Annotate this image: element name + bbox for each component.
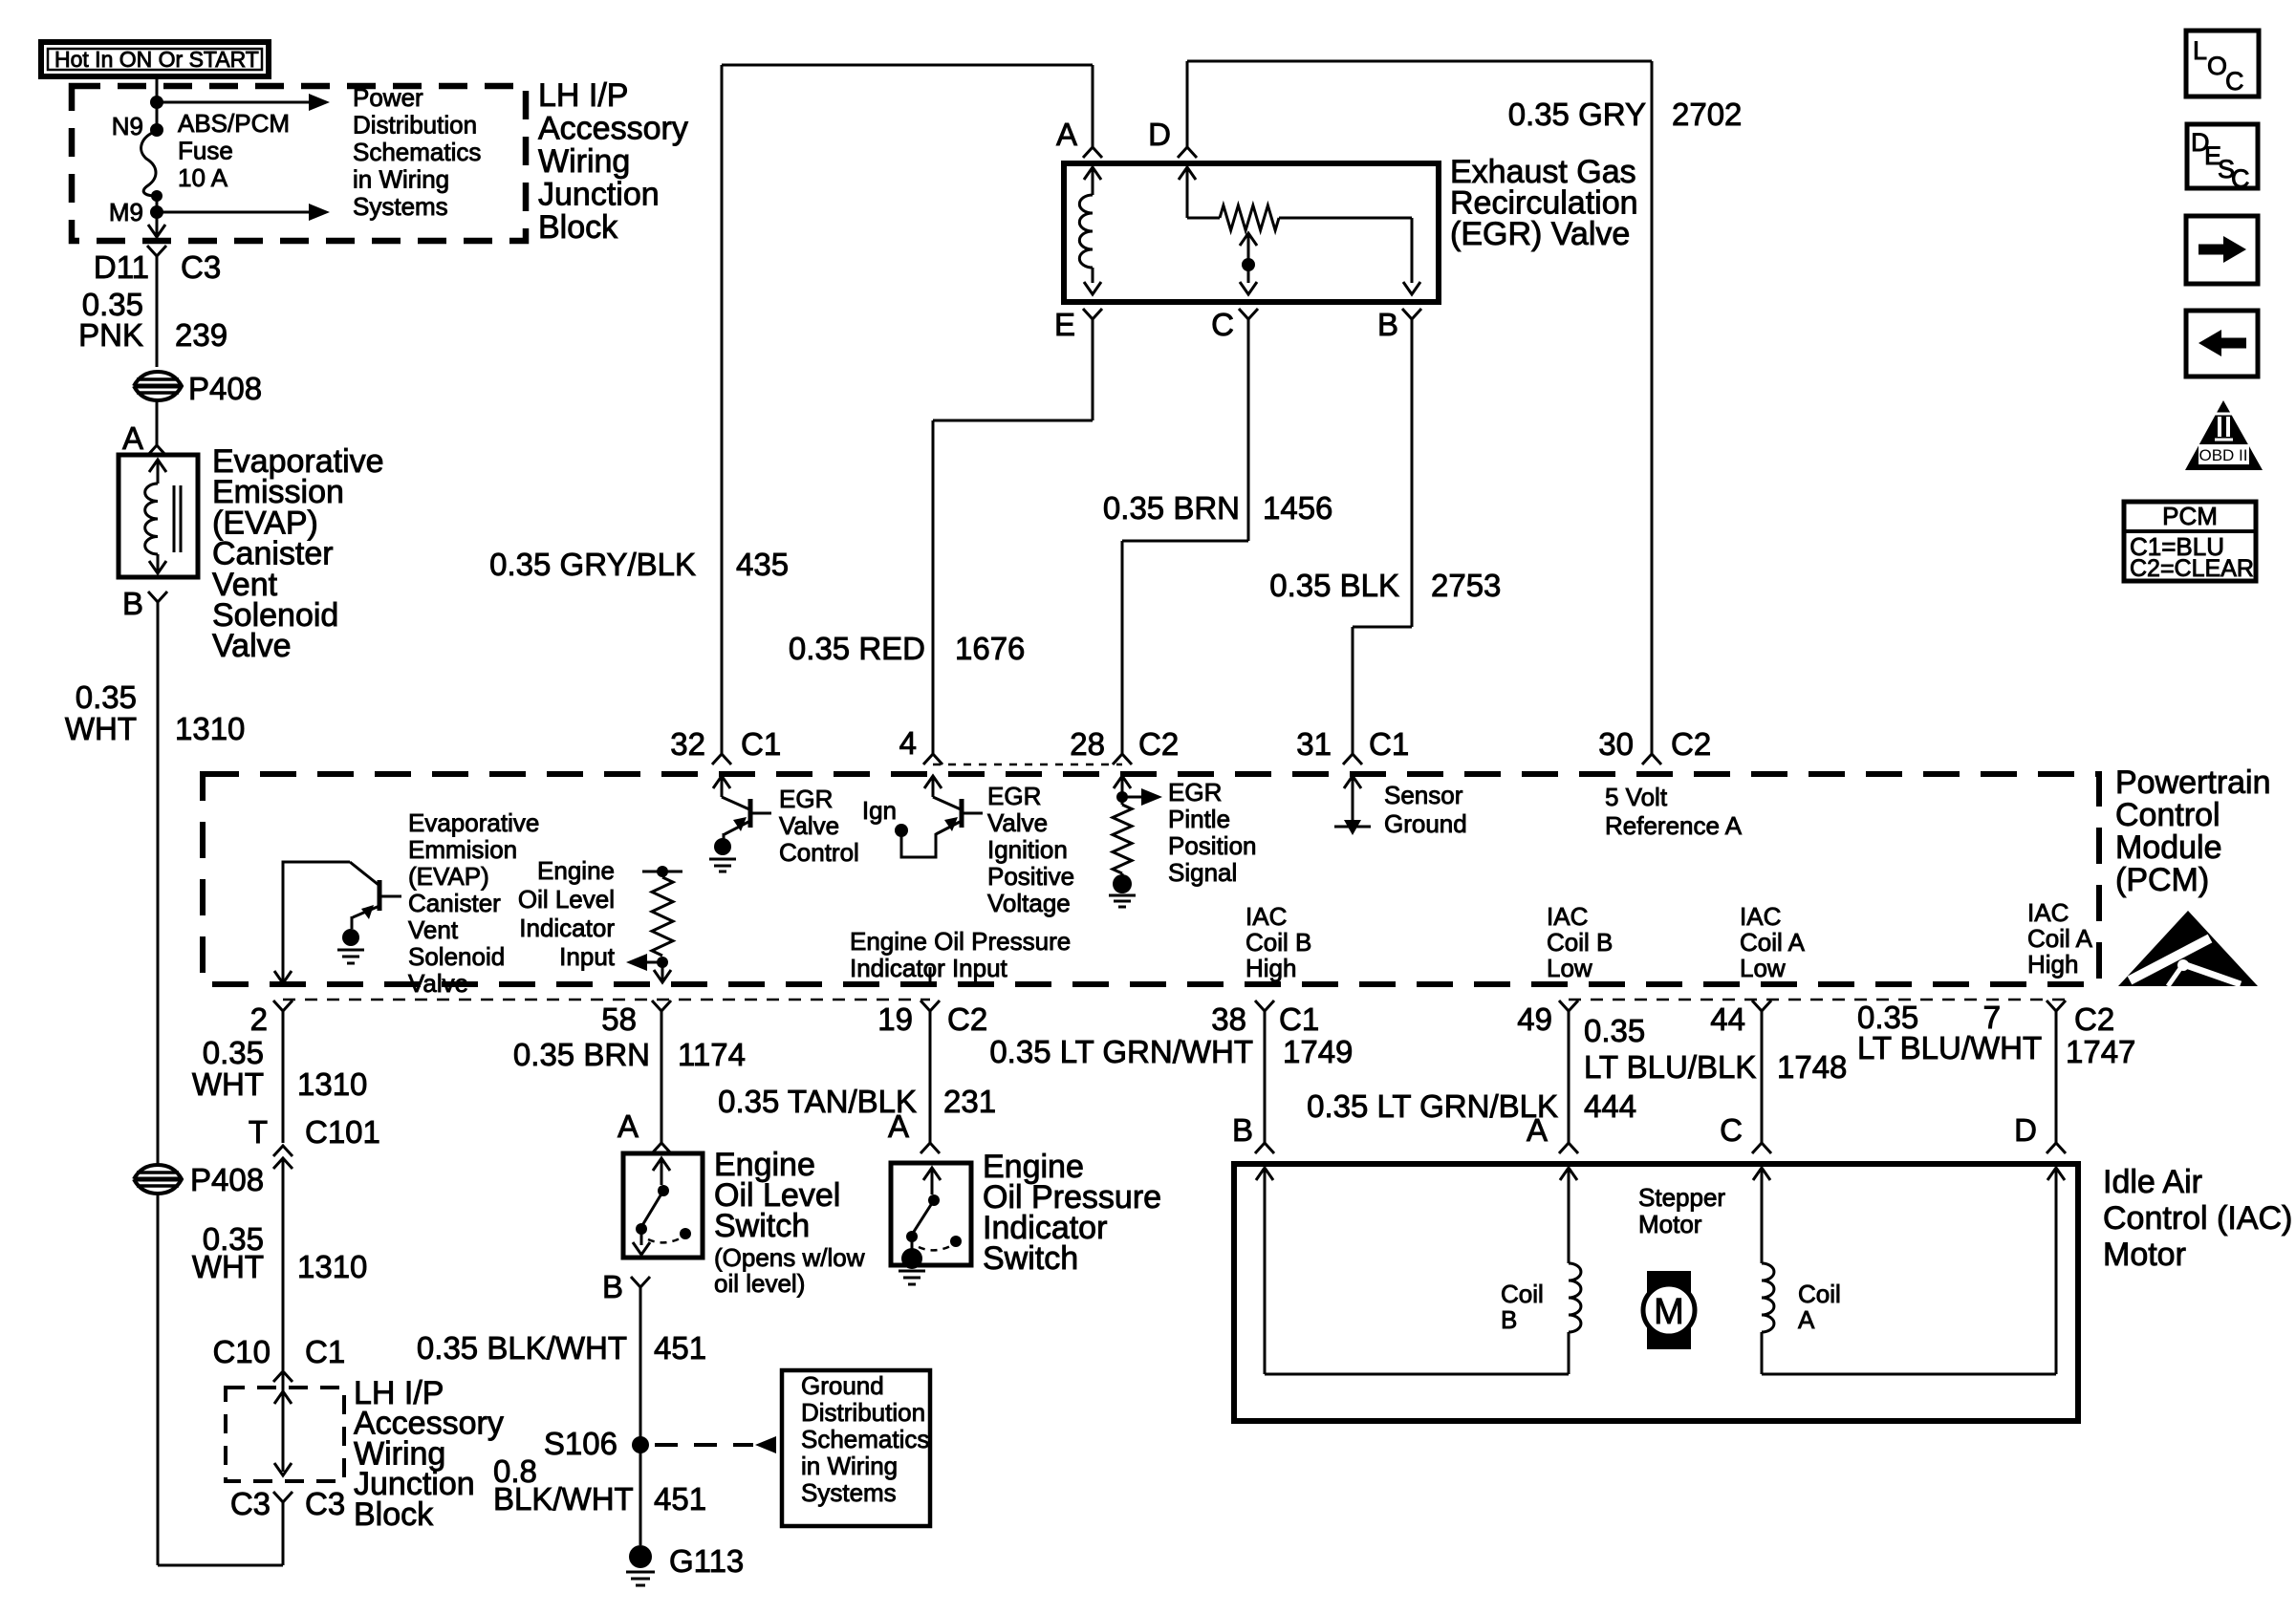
svg-text:1310: 1310 xyxy=(297,1066,367,1102)
svg-text:10 A: 10 A xyxy=(178,163,228,192)
svg-text:C: C xyxy=(1720,1112,1743,1148)
svg-text:T: T xyxy=(249,1114,268,1150)
svg-text:0.35: 0.35 xyxy=(203,1035,264,1070)
svg-text:Coil B: Coil B xyxy=(1245,928,1311,957)
svg-text:(PCM): (PCM) xyxy=(2115,862,2209,898)
svg-text:Motor: Motor xyxy=(2103,1237,2186,1273)
svg-text:0.35 BRN: 0.35 BRN xyxy=(1103,490,1240,526)
svg-text:P408: P408 xyxy=(188,371,262,406)
svg-text:EGR: EGR xyxy=(1168,778,1222,807)
svg-text:Positive: Positive xyxy=(987,862,1074,891)
svg-text:2702: 2702 xyxy=(1672,97,1742,132)
svg-text:Switch: Switch xyxy=(983,1240,1078,1277)
svg-text:IAC: IAC xyxy=(2027,898,2069,927)
svg-text:5 Volt: 5 Volt xyxy=(1605,783,1668,811)
svg-text:EGR: EGR xyxy=(987,782,1041,810)
svg-text:OBD II: OBD II xyxy=(2199,446,2247,464)
svg-text:D: D xyxy=(2014,1112,2037,1148)
svg-text:Junction: Junction xyxy=(538,177,660,213)
svg-text:PNK: PNK xyxy=(78,317,143,353)
svg-text:0.35 BLK: 0.35 BLK xyxy=(1269,568,1399,603)
svg-text:S106: S106 xyxy=(544,1426,617,1461)
svg-text:Distribution: Distribution xyxy=(353,111,477,140)
svg-text:in Wiring: in Wiring xyxy=(353,165,449,194)
svg-text:Valve: Valve xyxy=(408,969,468,998)
svg-text:IAC: IAC xyxy=(1245,902,1287,931)
svg-text:B: B xyxy=(1377,307,1398,342)
svg-text:Accessory: Accessory xyxy=(538,111,688,147)
svg-text:Input: Input xyxy=(559,942,616,971)
svg-text:C1: C1 xyxy=(1369,726,1409,762)
svg-text:Ground: Ground xyxy=(801,1371,884,1400)
svg-text:C: C xyxy=(2225,67,2244,96)
svg-text:Control (IAC): Control (IAC) xyxy=(2103,1200,2292,1237)
svg-text:Position: Position xyxy=(1168,831,1257,860)
svg-text:32: 32 xyxy=(670,726,705,762)
svg-text:LT BLU/WHT: LT BLU/WHT xyxy=(1857,1030,2042,1065)
svg-text:O: O xyxy=(2207,52,2227,80)
svg-text:28: 28 xyxy=(1070,726,1105,762)
svg-text:0.35 GRY/BLK: 0.35 GRY/BLK xyxy=(489,547,696,582)
svg-text:Low: Low xyxy=(1547,954,1592,982)
svg-text:PCM: PCM xyxy=(2162,502,2218,530)
svg-text:IAC: IAC xyxy=(1547,902,1588,931)
svg-text:Sensor: Sensor xyxy=(1384,781,1463,809)
svg-text:Schematics: Schematics xyxy=(353,138,481,166)
svg-text:Hot In ON Or START: Hot In ON Or START xyxy=(54,47,259,72)
svg-text:Power: Power xyxy=(353,83,423,112)
svg-text:4: 4 xyxy=(899,725,917,761)
svg-text:Solenoid: Solenoid xyxy=(408,942,505,971)
svg-text:Canister: Canister xyxy=(408,889,501,917)
svg-text:0.35 LT GRN/BLK: 0.35 LT GRN/BLK xyxy=(1307,1088,1558,1124)
svg-text:Coil: Coil xyxy=(1501,1280,1544,1308)
svg-text:2753: 2753 xyxy=(1431,568,1501,603)
svg-text:BLK/WHT: BLK/WHT xyxy=(493,1481,634,1517)
svg-text:Pintle: Pintle xyxy=(1168,805,1230,833)
svg-text:Coil A: Coil A xyxy=(1740,928,1806,957)
svg-text:Powertrain: Powertrain xyxy=(2115,764,2271,801)
svg-text:WHT: WHT xyxy=(192,1066,264,1102)
svg-text:C101: C101 xyxy=(305,1114,380,1150)
svg-text:A: A xyxy=(888,1108,909,1144)
svg-text:Coil B: Coil B xyxy=(1547,928,1613,957)
svg-text:0.35 LT GRN/WHT: 0.35 LT GRN/WHT xyxy=(989,1034,1253,1069)
svg-text:Systems: Systems xyxy=(353,192,448,221)
svg-text:Reference A: Reference A xyxy=(1605,811,1743,840)
svg-text:(Opens w/low: (Opens w/low xyxy=(714,1243,865,1272)
svg-text:B: B xyxy=(122,586,143,621)
svg-text:Evaporative: Evaporative xyxy=(408,808,539,837)
svg-text:0.35 BLK/WHT: 0.35 BLK/WHT xyxy=(417,1330,627,1366)
svg-text:Fuse: Fuse xyxy=(178,137,233,165)
svg-text:Vent: Vent xyxy=(408,915,459,944)
svg-text:49: 49 xyxy=(1517,1001,1552,1037)
svg-text:L: L xyxy=(2193,36,2207,65)
svg-text:Ign: Ign xyxy=(862,796,897,825)
svg-text:Stepper: Stepper xyxy=(1638,1183,1725,1212)
svg-text:A: A xyxy=(122,420,143,456)
svg-text:Ignition: Ignition xyxy=(987,835,1068,864)
svg-text:Block: Block xyxy=(354,1496,434,1533)
svg-text:High: High xyxy=(1245,954,1296,982)
svg-text:WHT: WHT xyxy=(192,1249,264,1284)
svg-text:Motor: Motor xyxy=(1638,1210,1702,1238)
svg-text:EGR: EGR xyxy=(779,785,833,813)
svg-text:N9: N9 xyxy=(112,112,143,140)
svg-text:ABS/PCM: ABS/PCM xyxy=(178,109,290,138)
svg-text:C: C xyxy=(2231,164,2250,193)
svg-text:M: M xyxy=(1654,1292,1684,1332)
svg-text:Control: Control xyxy=(779,838,859,867)
svg-text:0.35: 0.35 xyxy=(1584,1013,1645,1048)
svg-text:19: 19 xyxy=(877,1001,913,1037)
svg-text:Ground: Ground xyxy=(1384,809,1467,838)
svg-text:A: A xyxy=(1527,1112,1548,1148)
svg-text:IAC: IAC xyxy=(1740,902,1781,931)
svg-text:C3: C3 xyxy=(305,1486,345,1521)
svg-text:1310: 1310 xyxy=(297,1249,367,1284)
svg-text:WHT: WHT xyxy=(65,711,137,746)
svg-text:Block: Block xyxy=(538,209,618,246)
svg-text:A: A xyxy=(1798,1305,1815,1334)
svg-text:P408: P408 xyxy=(190,1162,264,1197)
svg-text:Valve: Valve xyxy=(212,628,292,664)
svg-text:A: A xyxy=(1056,117,1077,152)
svg-text:1749: 1749 xyxy=(1283,1034,1353,1069)
svg-text:0.35 RED: 0.35 RED xyxy=(789,631,925,666)
svg-text:Valve: Valve xyxy=(779,811,839,840)
svg-text:(EGR) Valve: (EGR) Valve xyxy=(1450,216,1630,252)
svg-text:D11: D11 xyxy=(94,249,149,285)
svg-text:Signal: Signal xyxy=(1168,858,1237,887)
svg-text:1174: 1174 xyxy=(678,1037,746,1072)
svg-text:C2=CLEAR: C2=CLEAR xyxy=(2130,555,2254,582)
svg-text:M9: M9 xyxy=(109,198,143,226)
svg-text:C3: C3 xyxy=(181,249,221,285)
svg-text:239: 239 xyxy=(175,317,227,353)
svg-text:C2: C2 xyxy=(947,1001,987,1037)
svg-text:Emmision: Emmision xyxy=(408,835,517,864)
svg-text:B: B xyxy=(1232,1112,1253,1148)
svg-text:451: 451 xyxy=(654,1481,706,1517)
svg-text:1748: 1748 xyxy=(1777,1049,1847,1085)
svg-text:Wiring: Wiring xyxy=(538,143,630,180)
svg-text:2: 2 xyxy=(250,1001,268,1037)
svg-text:B: B xyxy=(602,1269,623,1304)
svg-text:High: High xyxy=(2027,950,2078,979)
svg-text:C1: C1 xyxy=(305,1334,345,1369)
svg-text:Module: Module xyxy=(2115,829,2222,866)
svg-text:C: C xyxy=(1211,307,1234,342)
svg-text:G113: G113 xyxy=(669,1543,744,1579)
svg-text:Switch: Switch xyxy=(714,1208,810,1244)
svg-text:Systems: Systems xyxy=(801,1478,897,1507)
svg-text:31: 31 xyxy=(1296,726,1332,762)
svg-text:C1: C1 xyxy=(1279,1001,1319,1037)
svg-text:Voltage: Voltage xyxy=(987,889,1071,917)
svg-text:LH I/P: LH I/P xyxy=(538,77,628,114)
svg-text:C2: C2 xyxy=(1138,726,1179,762)
svg-text:Coil A: Coil A xyxy=(2027,924,2093,953)
svg-text:C3: C3 xyxy=(230,1486,271,1521)
svg-text:A: A xyxy=(617,1108,639,1144)
svg-text:0.35: 0.35 xyxy=(76,679,137,715)
svg-text:Distribution: Distribution xyxy=(801,1398,925,1427)
svg-text:58: 58 xyxy=(601,1001,637,1037)
svg-text:Low: Low xyxy=(1740,954,1786,982)
svg-text:0.35 BRN: 0.35 BRN xyxy=(513,1037,650,1072)
svg-text:C10: C10 xyxy=(212,1334,271,1369)
svg-text:231: 231 xyxy=(943,1084,996,1119)
svg-text:Engine: Engine xyxy=(537,856,615,885)
svg-text:30: 30 xyxy=(1598,726,1634,762)
svg-text:444: 444 xyxy=(1584,1088,1636,1124)
svg-text:Oil Level: Oil Level xyxy=(518,885,615,914)
svg-text:D: D xyxy=(1148,117,1171,152)
svg-text:C2: C2 xyxy=(1671,726,1711,762)
svg-text:435: 435 xyxy=(736,547,789,582)
svg-text:Valve: Valve xyxy=(987,808,1048,837)
svg-text:44: 44 xyxy=(1710,1001,1745,1037)
svg-text:C2: C2 xyxy=(2074,1001,2114,1037)
svg-text:C1: C1 xyxy=(741,726,781,762)
svg-text:38: 38 xyxy=(1211,1001,1246,1037)
svg-text:Control: Control xyxy=(2115,797,2220,833)
svg-text:(EVAP): (EVAP) xyxy=(408,862,489,891)
svg-text:oil level): oil level) xyxy=(714,1269,805,1298)
svg-text:E: E xyxy=(1054,307,1075,342)
svg-text:0.35 GRY: 0.35 GRY xyxy=(1508,97,1646,132)
svg-text:0.35 TAN/BLK: 0.35 TAN/BLK xyxy=(718,1084,917,1119)
svg-text:Engine Oil Pressure: Engine Oil Pressure xyxy=(850,927,1071,956)
svg-text:Idle Air: Idle Air xyxy=(2103,1164,2202,1200)
svg-text:LT BLU/BLK: LT BLU/BLK xyxy=(1584,1049,1756,1085)
svg-text:1747: 1747 xyxy=(2066,1034,2135,1069)
svg-text:Coil: Coil xyxy=(1798,1280,1841,1308)
svg-text:Indicator: Indicator xyxy=(519,914,615,942)
svg-text:1676: 1676 xyxy=(955,631,1025,666)
svg-text:1456: 1456 xyxy=(1263,490,1332,526)
svg-text:B: B xyxy=(1501,1305,1517,1334)
svg-text:Schematics: Schematics xyxy=(801,1425,929,1453)
svg-text:451: 451 xyxy=(654,1330,706,1366)
svg-text:in Wiring: in Wiring xyxy=(801,1452,898,1480)
svg-text:1310: 1310 xyxy=(175,711,245,746)
